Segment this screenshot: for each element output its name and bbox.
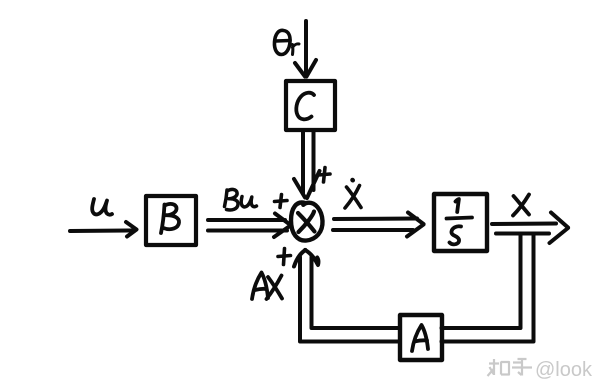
block A <box>400 315 442 360</box>
label AX <box>252 273 282 300</box>
wire: feedback tap down from output (double line right side) <box>442 234 534 342</box>
label B (inside block) <box>161 204 179 233</box>
label A (inside block) <box>412 325 428 351</box>
plus sign (left of junction) <box>275 195 288 208</box>
block C <box>286 81 335 130</box>
block 1/s (integrator) <box>434 194 487 251</box>
label X-dot <box>345 180 361 208</box>
wire: up-arrow head into junction bottom <box>294 250 318 267</box>
watermark: zhihu @look <box>488 359 533 376</box>
wire: output arrow from integrator <box>492 213 568 244</box>
label C (inside block) <box>296 93 314 120</box>
wire: u input arrow into B <box>70 222 137 237</box>
label 1/s (inside block) <box>447 199 473 244</box>
summing junction (circle with X) <box>291 203 323 241</box>
block B <box>146 196 196 245</box>
wire: double-line arrow Bu from B to junction <box>208 214 291 238</box>
label u (input) <box>92 199 112 215</box>
label X (output) <box>513 195 529 216</box>
label theta_r <box>274 30 299 54</box>
wire: double-line arrow junction to integrator <box>333 213 424 237</box>
plus sign (top right of junction) <box>319 168 331 183</box>
wire: feedback from A to up-arrow (double line bottom left) <box>300 257 400 342</box>
svg-text:@look: @look <box>535 359 593 381</box>
label Bu <box>225 189 257 210</box>
wire: double-line arrow C to summing junction <box>294 132 320 198</box>
wire: theta_r input vertical arrow into C <box>295 21 316 77</box>
plus sign (below junction, near AX) <box>278 249 291 265</box>
